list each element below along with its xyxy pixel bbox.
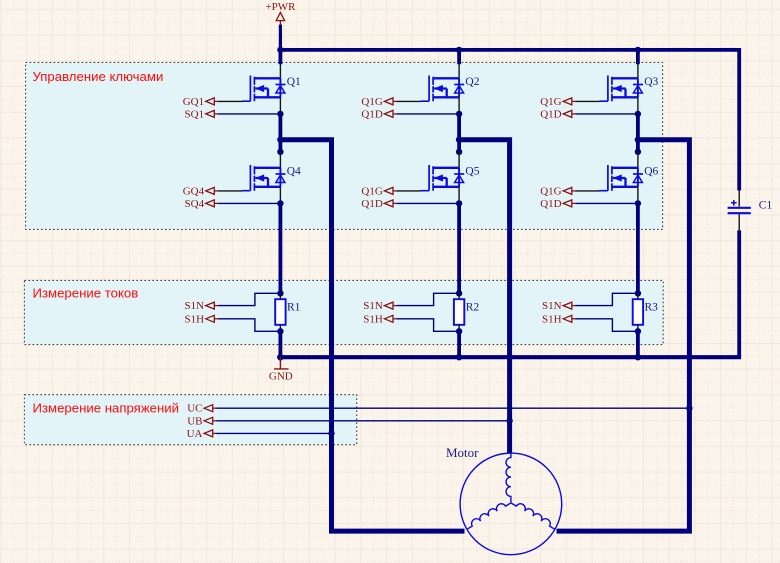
box: Измерение напряжений (voltage measurement group) (24, 395, 356, 445)
transistor Q1 (242, 76, 286, 102)
node source Q2 (456, 111, 462, 117)
pin R2 bottom (458, 325, 460, 332)
wire gate lead Q5 (396, 190, 420, 192)
resistor R3 (633, 299, 643, 325)
node phase T2 (456, 149, 462, 155)
svg-text:GQ1: GQ1 (183, 96, 204, 108)
node R3 top (635, 290, 641, 296)
pin Q3 drain (637, 64, 639, 78)
svg-text:Q3: Q3 (644, 76, 658, 88)
motor winding top (506, 453, 511, 502)
svg-text:SQ1: SQ1 (185, 108, 205, 120)
node bottom rail (456, 354, 462, 360)
node R2 bottom (456, 328, 462, 334)
node phase T (277, 137, 283, 143)
node R1 bottom (277, 328, 283, 334)
motor winding left (467, 503, 511, 529)
wire C1 top drop (737, 48, 741, 191)
wire source net Q1 (218, 113, 281, 115)
svg-text:S1N: S1N (363, 300, 383, 312)
ground GND (274, 357, 289, 369)
svg-text:Q4: Q4 (287, 165, 301, 177)
wire bottom rail (280, 355, 741, 359)
svg-text:Управление ключами: Управление ключами (33, 69, 164, 84)
node source Q1 (277, 111, 283, 117)
node Q3 drain / +PWR (635, 47, 641, 53)
wire source net Q3 (575, 113, 638, 115)
node UA junction (328, 430, 334, 436)
wire S1H to R3 bottom (575, 319, 638, 332)
wire phase B (459, 140, 510, 454)
wire source net Q6 (575, 202, 638, 204)
wire Q1 source to phase (278, 114, 282, 152)
pin R3 top (637, 293, 639, 299)
node Q1 drain / +PWR (277, 47, 283, 53)
svg-text:GQ4: GQ4 (183, 185, 205, 197)
svg-text:Q1D: Q1D (361, 198, 382, 210)
svg-text:+PWR: +PWR (265, 1, 296, 13)
wire +PWR top rail (280, 48, 739, 52)
wire gate lead Q1 (218, 100, 242, 102)
node R3 bottom (635, 328, 641, 334)
pin Q1 source (279, 97, 281, 114)
svg-text:Q1G: Q1G (540, 185, 561, 197)
wire gate lead Q4 (218, 190, 242, 192)
wire Q5 source to R2 (457, 203, 461, 293)
transistor Q2 (421, 76, 465, 102)
wire gate lead Q2 (396, 100, 420, 102)
capacitor C1 pins (738, 190, 740, 232)
wire R3 to GND rail (636, 331, 640, 357)
wire C1 bottom drop (737, 230, 741, 357)
svg-text:Q1D: Q1D (540, 198, 561, 210)
svg-text:S1H: S1H (185, 313, 205, 325)
svg-text:UC: UC (187, 403, 202, 415)
node phase T (635, 137, 641, 143)
transistor Q3 (599, 76, 643, 102)
pin Q4 source (279, 187, 281, 204)
transistor Q6 (599, 165, 643, 191)
svg-text:Q1D: Q1D (540, 108, 561, 120)
node phase T2 (277, 149, 283, 155)
wire rail stub (636, 50, 640, 64)
node R2 top (456, 290, 462, 296)
wire +PWR vertical (279, 25, 282, 50)
wire UB (216, 420, 510, 422)
svg-text:Q2: Q2 (465, 76, 479, 88)
wire Q2 source to phase (457, 114, 461, 152)
svg-text:UA: UA (187, 428, 203, 440)
wire rail stub (278, 50, 282, 64)
wire gate lead Q6 (575, 190, 599, 192)
svg-text:Q1G: Q1G (361, 96, 382, 108)
node GND (277, 354, 283, 360)
wire source net Q2 (396, 113, 459, 115)
wire UA (216, 432, 331, 434)
wire R1 to GND rail (278, 331, 282, 357)
pin R2 top (458, 293, 460, 299)
svg-text:Q1: Q1 (287, 76, 301, 88)
pin Q6 drain (637, 152, 639, 168)
wire Q6 source to R3 (636, 203, 640, 293)
svg-text:GND: GND (269, 371, 293, 383)
node bottom rail (635, 354, 641, 360)
motor M1 circle (460, 453, 562, 555)
svg-text:C1: C1 (759, 200, 773, 212)
wire gate lead Q3 (575, 100, 599, 102)
wire rail stub (457, 50, 461, 64)
wire source net Q4 (218, 202, 281, 204)
wire UC (216, 407, 689, 409)
svg-text:SQ4: SQ4 (185, 198, 205, 210)
resistor R1 (275, 299, 285, 325)
node UC junction (686, 405, 692, 411)
pin Q4 drain (279, 152, 281, 168)
capacitor C1 (728, 208, 751, 213)
svg-text:Motor: Motor (446, 445, 479, 460)
motor winding right (511, 503, 555, 529)
pin Q1 drain (279, 64, 281, 78)
pin Q2 drain (458, 64, 460, 78)
pin Q6 source (637, 187, 639, 204)
wire phase C (557, 140, 690, 531)
svg-text:Q6: Q6 (644, 165, 658, 177)
svg-text:UB: UB (187, 415, 202, 427)
svg-text:Q1D: Q1D (361, 108, 382, 120)
box: Измерение токов (current measurement group) (24, 280, 663, 344)
svg-text:Q1G: Q1G (540, 96, 561, 108)
node source Q3 (635, 111, 641, 117)
node source Q4 (277, 200, 283, 206)
node phase T2 (635, 149, 641, 155)
node source Q6 (635, 200, 641, 206)
wire Q4 source to R1 (278, 203, 282, 293)
transistor Q5 (421, 165, 465, 191)
pin R1 bottom (279, 325, 281, 332)
svg-text:Измерение токов: Измерение токов (33, 286, 139, 301)
pin R3 bottom (637, 325, 639, 332)
wire source net Q5 (396, 202, 459, 204)
resistor R2 (454, 299, 464, 325)
wire S1N to R3 top (575, 293, 638, 305)
node bottom rail (277, 354, 283, 360)
node Q2 drain / +PWR (456, 47, 462, 53)
svg-text:S1N: S1N (542, 300, 562, 312)
wire S1H to R2 bottom (396, 319, 459, 332)
svg-text:Q5: Q5 (465, 165, 479, 177)
svg-text:S1H: S1H (363, 313, 383, 325)
svg-text:Q1G: Q1G (361, 185, 382, 197)
pin Q5 source (458, 187, 460, 204)
svg-text:S1H: S1H (542, 313, 562, 325)
svg-text:R2: R2 (466, 301, 480, 313)
svg-text:S1N: S1N (185, 300, 205, 312)
pin R1 top (279, 293, 281, 299)
pin Q2 source (458, 97, 460, 114)
node UB junction (506, 418, 512, 424)
box: Управление ключами (switch control group) (26, 62, 663, 229)
svg-text:R3: R3 (645, 301, 659, 313)
node phase T (456, 137, 462, 143)
wire R2 to GND rail (457, 331, 461, 357)
node source Q5 (456, 200, 462, 206)
pin Q5 drain (458, 152, 460, 168)
pin Q3 source (637, 97, 639, 114)
transistor Q4 (242, 165, 286, 191)
wire Q3 source to phase (636, 114, 640, 152)
svg-text:Измерение напряжений: Измерение напряжений (33, 401, 180, 416)
svg-text:R1: R1 (287, 301, 301, 313)
wire S1N to R1 top (218, 293, 281, 305)
wire S1H to R1 bottom (218, 319, 281, 332)
node R1 top (277, 290, 283, 296)
wire S1N to R2 top (396, 293, 459, 305)
wire phase A (280, 140, 464, 531)
